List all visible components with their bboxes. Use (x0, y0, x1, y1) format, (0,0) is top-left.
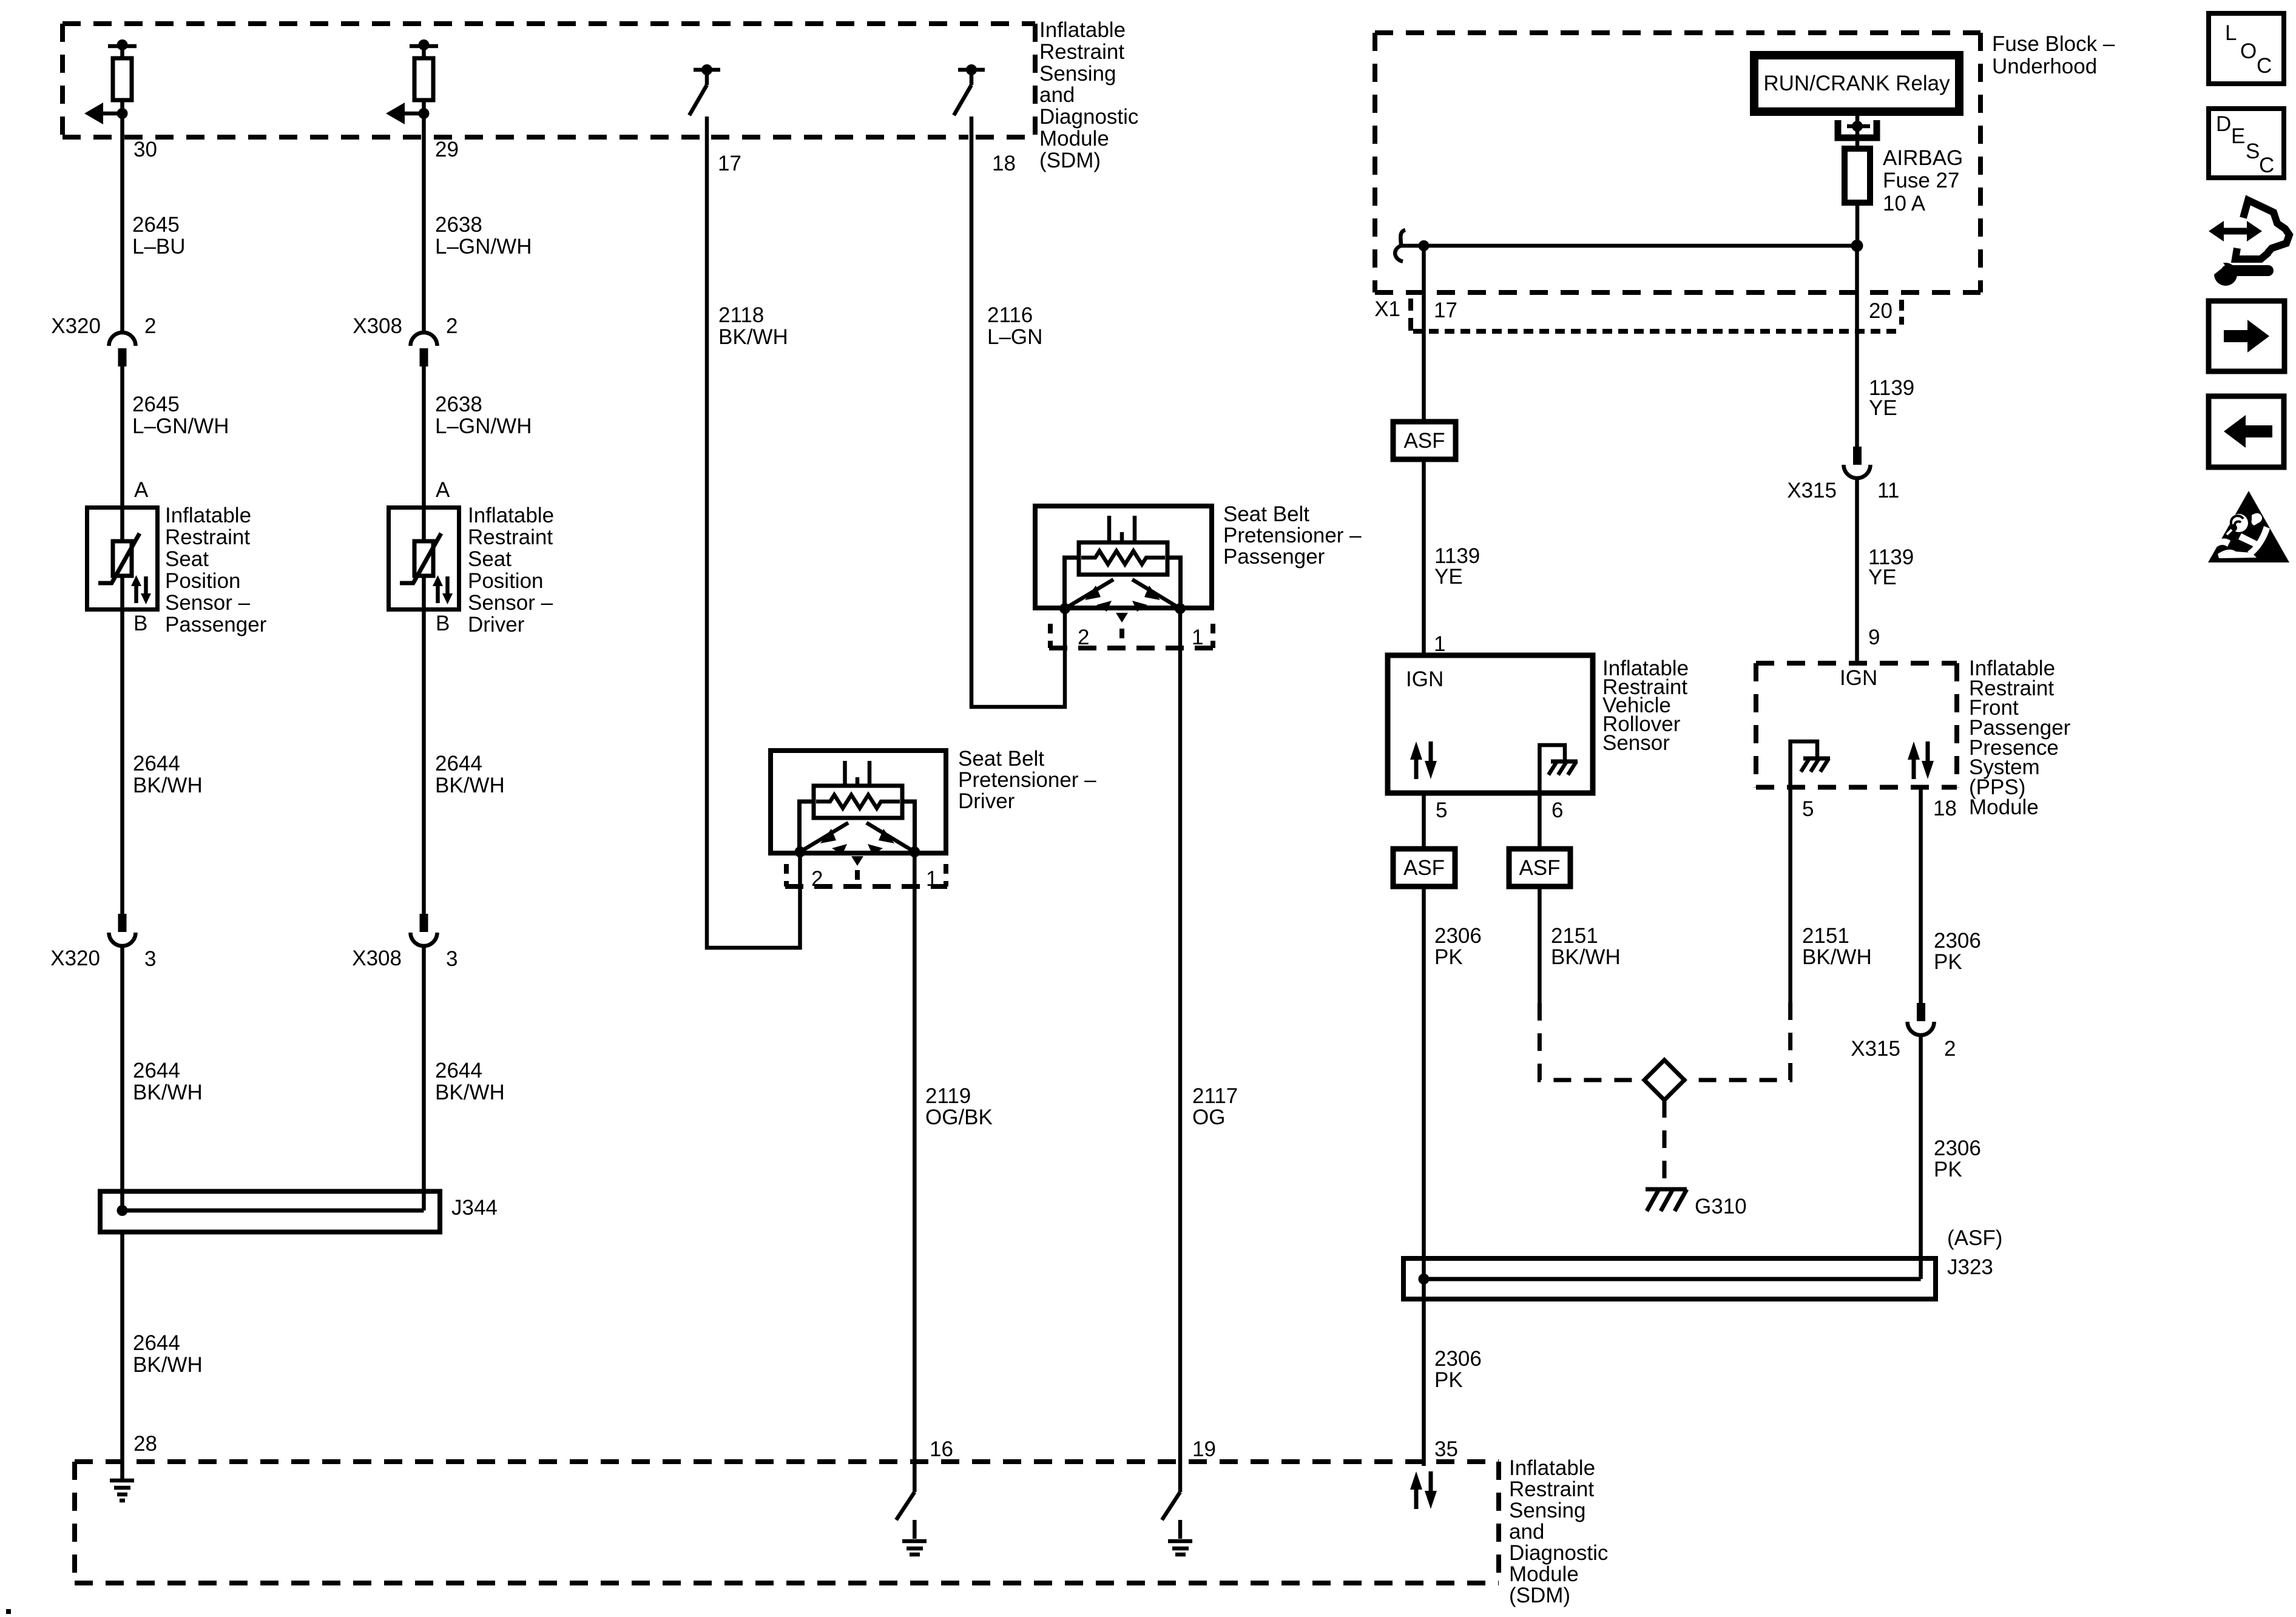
svg-text:2116: 2116 (987, 303, 1033, 327)
resistor symbol SDM pin 30 (84, 39, 137, 124)
dashed to G310 (1663, 1100, 1667, 1184)
svg-text:Position: Position (468, 569, 544, 593)
LOC icon box (2209, 13, 2284, 84)
bidirectional arrows in rollover sensor (1410, 741, 1437, 779)
svg-text:A: A (134, 478, 149, 502)
svg-text:2306: 2306 (1434, 924, 1482, 948)
svg-text:J344: J344 (451, 1196, 498, 1220)
svg-text:L–GN/WH: L–GN/WH (132, 414, 229, 438)
svg-text:S: S (2246, 140, 2260, 163)
svg-text:Seat Belt: Seat Belt (958, 747, 1044, 771)
wire relay to fuse (1855, 115, 1860, 148)
wire 2644 BK/WH (J344 to SDM 28) (120, 1232, 124, 1479)
junction node left (1419, 240, 1430, 251)
svg-text:Module: Module (1509, 1562, 1579, 1586)
svg-text:and: and (1509, 1520, 1544, 1544)
svg-text:C: C (2257, 54, 2272, 78)
svg-text:AIRBAG: AIRBAG (1883, 146, 1963, 170)
svg-text:BK/WH: BK/WH (1802, 945, 1872, 969)
svg-text:L–BU: L–BU (132, 235, 186, 258)
svg-text:BK/WH: BK/WH (435, 774, 505, 797)
svg-text:17: 17 (718, 152, 741, 175)
switch symbol SDM pin 18 (954, 64, 985, 115)
svg-text:E: E (2231, 124, 2245, 148)
wire 2117 OG (pretensioner passenger 1 to SDM 19) (1178, 609, 1183, 1492)
svg-text:IGN: IGN (1840, 666, 1877, 690)
relay output tick and junction (1847, 124, 1870, 129)
svg-text:2645: 2645 (132, 393, 180, 416)
dashed 2151 to diamond (1684, 1002, 1791, 1080)
svg-text:16: 16 (930, 1437, 953, 1461)
svg-text:Inflatable: Inflatable (468, 504, 554, 527)
svg-text:BK/WH: BK/WH (1551, 945, 1621, 969)
svg-text:Inflatable: Inflatable (165, 504, 251, 527)
svg-text:and: and (1039, 83, 1075, 107)
svg-text:B: B (436, 612, 450, 635)
ground at SDM pin 28 (110, 1480, 134, 1501)
svg-text:B: B (133, 612, 147, 635)
wire rollover 5 to ASF (1422, 793, 1426, 849)
svg-text:19: 19 (1192, 1437, 1216, 1461)
internal ground in rollover sensor (1539, 745, 1578, 793)
svg-text:17: 17 (1434, 299, 1457, 322)
svg-text:2151: 2151 (1551, 924, 1598, 948)
PPS module dashed box (1756, 663, 1957, 788)
ASF box (pin 5) (1393, 849, 1455, 886)
svg-text:Inflatable: Inflatable (1509, 1456, 1595, 1480)
wire 2151 BK/WH (PPS 5 down, solid then dashed) (1788, 788, 1792, 1003)
svg-text:YE: YE (1868, 565, 1897, 589)
wire 1139 YE (X315:11 to PPS IGN 9) (1855, 478, 1859, 663)
svg-text:2638: 2638 (435, 393, 482, 416)
svg-text:2644: 2644 (435, 752, 482, 775)
svg-text:2644: 2644 (133, 1331, 180, 1355)
feed hook terminal (1395, 230, 1405, 262)
svg-text:9: 9 (1868, 626, 1880, 649)
svg-text:Seat: Seat (165, 547, 209, 571)
SDM top box border (62, 24, 1035, 137)
svg-text:YE: YE (1869, 396, 1897, 420)
rollover sensor box (1388, 655, 1593, 793)
svg-text:X320: X320 (51, 314, 101, 338)
bus wire inside fuse block (1401, 244, 1857, 248)
wire 2645 L-BU (SDM 30 to X320:2) (120, 113, 124, 333)
wire 2644 BK/WH (sensor B down) (120, 610, 124, 914)
svg-text:Position: Position (165, 569, 241, 593)
svg-text:X315: X315 (1851, 1037, 1900, 1061)
svg-text:2645: 2645 (132, 213, 180, 237)
svg-text:G310: G310 (1695, 1195, 1747, 1218)
svg-text:BK/WH: BK/WH (133, 1081, 203, 1104)
svg-text:BK/WH: BK/WH (435, 1081, 505, 1104)
svg-text:29: 29 (435, 138, 459, 161)
svg-text:Restraint: Restraint (1039, 40, 1124, 64)
svg-text:20: 20 (1869, 299, 1893, 323)
service manual icon (2208, 200, 2289, 286)
ASF box (pin 6) (1509, 849, 1570, 886)
svg-text:Passenger: Passenger (1223, 545, 1325, 569)
svg-text:IGN: IGN (1406, 667, 1443, 691)
svg-text:Sensor –: Sensor – (468, 591, 553, 615)
svg-text:(SDM): (SDM) (1509, 1584, 1570, 1607)
svg-text:Seat Belt: Seat Belt (1223, 502, 1309, 526)
seat belt pretensioner passenger (1035, 506, 1212, 623)
svg-text:2638: 2638 (435, 213, 482, 237)
svg-text:BK/WH: BK/WH (718, 325, 788, 349)
internal ground in PPS (1791, 741, 1830, 787)
svg-text:2117: 2117 (1192, 1084, 1238, 1108)
forward arrow icon box (2209, 301, 2284, 371)
svg-text:X315: X315 (1787, 479, 1837, 502)
svg-text:28: 28 (133, 1432, 157, 1456)
svg-text:A: A (436, 478, 450, 502)
splice J344 (100, 1192, 440, 1232)
svg-text:2: 2 (144, 314, 156, 338)
svg-text:Pretensioner –: Pretensioner – (1223, 524, 1362, 547)
svg-text:2644: 2644 (435, 1059, 482, 1082)
svg-text:Module: Module (1039, 127, 1109, 150)
svg-text:10 A: 10 A (1883, 192, 1926, 215)
back arrow icon box (2209, 396, 2284, 467)
svg-text:YE: YE (1434, 565, 1463, 589)
svg-text:X308: X308 (353, 314, 402, 338)
wire 2644 BK/WH (sensor B down) (422, 610, 426, 914)
svg-text:Module: Module (1969, 795, 2039, 819)
connector X320 pin 3 (109, 914, 136, 946)
svg-text:Sensing: Sensing (1039, 62, 1116, 86)
svg-text:OG/BK: OG/BK (925, 1106, 993, 1129)
seat belt pretensioner driver (771, 751, 946, 866)
SDM bottom box border (75, 1462, 1499, 1583)
wire 2151 BK/WH (ASF down, solid then dashed) (1538, 886, 1542, 1003)
switch symbol SDM pin 17 (689, 64, 720, 115)
svg-text:Restraint: Restraint (468, 525, 553, 549)
svg-text:Restraint: Restraint (165, 525, 250, 549)
svg-text:Pretensioner –: Pretensioner – (958, 768, 1096, 792)
svg-text:X308: X308 (352, 947, 402, 970)
connector X308 pin 2 (411, 333, 437, 366)
svg-text:L: L (2225, 21, 2237, 45)
connector X315 pin 2 (1908, 1003, 1934, 1035)
wire 2116 L-GN (SDM 18 to pretensioner passenger 2) (971, 116, 1065, 707)
wire 2306 PK (PPS 18 to X315:2) (1919, 788, 1923, 1004)
wire X1:17 down (1422, 246, 1426, 422)
svg-text:L–GN: L–GN (987, 325, 1042, 349)
svg-text:35: 35 (1434, 1437, 1458, 1461)
svg-text:2306: 2306 (1934, 1136, 1981, 1160)
svg-text:2118: 2118 (718, 303, 764, 327)
wire 2638 L-GN/WH (X308:2 to sensor A) (422, 366, 426, 507)
svg-text:(ASF): (ASF) (1947, 1226, 2002, 1250)
svg-text:Passenger: Passenger (165, 613, 267, 636)
connector X308 pin 3 (411, 914, 437, 946)
svg-text:X1: X1 (1374, 297, 1400, 321)
svg-text:BK/WH: BK/WH (133, 1353, 203, 1377)
svg-text:O: O (2240, 39, 2257, 63)
wire 2644 BK/WH (X308:3 to J344) (422, 946, 426, 1210)
svg-text:2151: 2151 (1802, 924, 1849, 948)
fuse block dashed box (1375, 33, 1980, 292)
svg-text:Driver: Driver (958, 789, 1015, 813)
svg-text:Sensing: Sensing (1509, 1499, 1585, 1522)
svg-text:1: 1 (1434, 632, 1445, 656)
svg-text:PK: PK (1934, 1158, 1962, 1181)
connector X315 pin 11 (1844, 447, 1871, 478)
svg-text:ASF: ASF (1403, 856, 1445, 880)
svg-text:5: 5 (1802, 797, 1814, 821)
svg-text:5: 5 (1436, 798, 1447, 822)
wire 2306 PK (ASF to J323) (1422, 886, 1426, 1466)
DESC icon box (2209, 109, 2284, 178)
wire X1:20 down (1855, 246, 1859, 447)
wire 2119 OG/BK (pretensioner driver 1 to SDM 16) (913, 852, 917, 1492)
svg-text:RUN/CRANK Relay: RUN/CRANK Relay (1763, 72, 1950, 95)
pretensioner driver connector dashes (785, 864, 947, 886)
svg-text:BK/WH: BK/WH (133, 774, 203, 797)
wire 2306 PK (X315:2 to J323) (1919, 1035, 1923, 1279)
seat position sensor passenger box (87, 507, 158, 610)
svg-text:2: 2 (1078, 626, 1089, 649)
wire 2645 L-GN/WH (X320:2 to sensor A) (120, 366, 124, 507)
svg-text:6: 6 (1551, 798, 1563, 822)
svg-text:2644: 2644 (133, 752, 180, 775)
seat position sensor driver box (389, 507, 459, 610)
svg-text:PK: PK (1934, 950, 1962, 974)
svg-text:Sensor: Sensor (1602, 731, 1670, 755)
wire fuse to bus (1855, 203, 1860, 246)
ground G310 (1646, 1189, 1687, 1211)
svg-text:ASF: ASF (1403, 429, 1445, 453)
junction node right (1851, 240, 1863, 252)
AIRBAG fuse 27 (1845, 149, 1870, 203)
svg-text:Seat: Seat (468, 547, 512, 571)
svg-text:2: 2 (446, 314, 458, 338)
svg-text:18: 18 (1933, 797, 1957, 820)
svg-text:1: 1 (1192, 626, 1203, 649)
ASF fuse tap box (1393, 422, 1456, 459)
svg-text:Fuse Block –: Fuse Block – (1992, 32, 2115, 56)
svg-text:Inflatable: Inflatable (1039, 18, 1126, 42)
svg-text:J323: J323 (1947, 1255, 1993, 1279)
RUN/CRANK relay box (1754, 55, 1959, 112)
svg-text:3: 3 (446, 947, 458, 971)
wire 2644 BK/WH (X320:3 to J344) (120, 946, 124, 1210)
svg-text:Diagnostic: Diagnostic (1039, 105, 1138, 129)
switch to ground at SDM pin 19 (1162, 1492, 1192, 1555)
connector X320 pin 2 (109, 333, 136, 366)
svg-text:X320: X320 (50, 947, 100, 970)
wire 2638 L-GN/WH (SDM 29 to X308:2) (422, 113, 426, 333)
svg-text:L–GN/WH: L–GN/WH (435, 235, 532, 258)
bidirectional arrows at SDM pin 35 (1410, 1471, 1437, 1509)
svg-text:Diagnostic: Diagnostic (1509, 1541, 1608, 1565)
pretensioner passenger connector dashes (1049, 624, 1214, 648)
svg-text:D: D (2216, 112, 2231, 136)
wire 1139 YE (ASF to rollover IGN 1) (1422, 459, 1426, 655)
svg-text:PK: PK (1434, 945, 1463, 969)
page period mark (6, 1609, 11, 1614)
svg-text:2119: 2119 (925, 1084, 971, 1108)
svg-text:18: 18 (992, 152, 1016, 175)
svg-text:3: 3 (144, 947, 156, 971)
svg-text:PK: PK (1434, 1368, 1463, 1392)
splice J323 (1403, 1258, 1936, 1299)
svg-text:2: 2 (1944, 1037, 1956, 1061)
svg-text:2: 2 (811, 867, 823, 891)
switch to ground at SDM pin 16 (896, 1492, 927, 1555)
svg-text:11: 11 (1877, 479, 1899, 502)
svg-text:2644: 2644 (133, 1059, 180, 1082)
dashed 2151 to ground diamond (1539, 1003, 1644, 1080)
bidirectional arrows in PPS (1908, 741, 1934, 779)
svg-text:(SDM): (SDM) (1039, 149, 1101, 172)
svg-text:OG: OG (1192, 1106, 1225, 1129)
X1 connector dashed line (1413, 329, 1899, 334)
svg-text:2306: 2306 (1434, 1347, 1482, 1371)
svg-text:2306: 2306 (1934, 929, 1981, 953)
wire 2118 BK/WH (SDM 17 to pretensioner driver 2) (707, 116, 800, 948)
resistor symbol SDM pin 29 (386, 39, 438, 124)
svg-text:1: 1 (926, 867, 937, 891)
svg-text:ASF: ASF (1519, 856, 1560, 880)
X1 pin ticks (1411, 299, 1902, 331)
ground distribution diamond (1644, 1060, 1684, 1100)
relay output cavity bracket (1838, 120, 1877, 138)
svg-text:Sensor –: Sensor – (165, 591, 251, 615)
svg-text:Underhood: Underhood (1992, 55, 2097, 78)
svg-text:Restraint: Restraint (1509, 1477, 1594, 1501)
svg-text:C: C (2259, 154, 2274, 177)
svg-text:L–GN/WH: L–GN/WH (435, 414, 532, 438)
SIR warning triangle icon (2208, 491, 2289, 562)
svg-text:30: 30 (133, 138, 157, 161)
wire rollover 6 to ASF (1538, 793, 1542, 849)
svg-text:Fuse 27: Fuse 27 (1883, 169, 1959, 192)
svg-text:Driver: Driver (468, 613, 525, 636)
